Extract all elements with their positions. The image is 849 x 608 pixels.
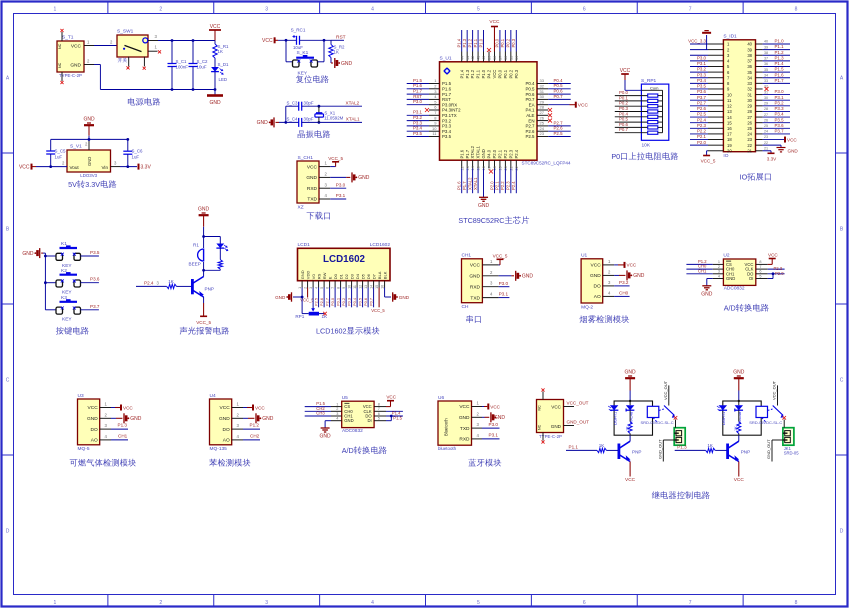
power port GND: [243, 417, 248, 419]
svg-text:NC: NC: [58, 43, 62, 49]
pin T1 GND pin 2: [84, 64, 94, 66]
pin CH1 TXD: [482, 297, 498, 299]
svg-text:P0.5: P0.5: [525, 87, 535, 92]
svg-text:P1.4: P1.4: [459, 69, 464, 78]
wire left pin 18: [690, 139, 708, 141]
svg-text:S_CH1: S_CH1: [298, 155, 314, 161]
svg-text:23: 23: [540, 131, 545, 136]
svg-text:K3: K3: [61, 295, 67, 301]
svg-text:8: 8: [795, 7, 798, 13]
svg-text:P3.5: P3.5: [442, 134, 452, 139]
caption download port: [307, 212, 330, 220]
svg-text:P1.3: P1.3: [677, 445, 687, 450]
svg-text:P2.1: P2.1: [697, 134, 707, 139]
pin U6 GND: [472, 416, 483, 418]
pin U3 DO: [100, 428, 111, 430]
wire LCD net P2.5: [318, 288, 320, 308]
pin U5 VCC: [374, 406, 386, 408]
wire net P1.7: [466, 168, 468, 193]
wire to VCC_5: [707, 150, 708, 152]
svg-text:P1.5: P1.5: [393, 415, 402, 420]
svg-text:P3.7: P3.7: [775, 129, 785, 134]
U1 top pin 44 P1.4: [461, 52, 463, 62]
svg-text:44: 44: [460, 56, 464, 60]
svg-text:P2.3: P2.3: [506, 181, 511, 190]
svg-text:GND: GND: [70, 63, 81, 69]
svg-text:P1.0: P1.0: [775, 39, 785, 44]
U1 left pin 7 P3.1TX: [429, 114, 440, 116]
svg-text:P3.0: P3.0: [499, 281, 509, 286]
svg-text:1: 1: [298, 287, 302, 289]
svg-text:25: 25: [747, 126, 752, 131]
svg-text:P1.6: P1.6: [442, 87, 452, 92]
resistor in LED branch: [219, 248, 221, 260]
svg-text:GND: GND: [481, 149, 486, 158]
svg-text:6: 6: [326, 287, 330, 289]
svg-text:VCC: VCC: [734, 477, 745, 483]
svg-text:30: 30: [540, 94, 545, 99]
svg-text:4: 4: [371, 7, 374, 13]
power port GND earth top: [702, 32, 711, 34]
wire net P1.5: [763, 71, 790, 73]
svg-text:P0.1: P0.1: [336, 298, 341, 306]
wire LCD net P2.6: [323, 288, 325, 308]
transistor PNP: [191, 279, 194, 294]
svg-text:1uF: 1uF: [132, 155, 140, 160]
wire EA to VCC: [548, 104, 569, 106]
svg-text:42: 42: [471, 56, 475, 60]
potentiometer RP1 1K: [309, 312, 319, 316]
LED indicator: [719, 405, 728, 410]
svg-text:P0.7: P0.7: [369, 298, 374, 306]
svg-text:P0.0: P0.0: [330, 297, 335, 306]
no-connect X: [765, 87, 769, 91]
no-connect X: [425, 108, 429, 112]
svg-text:VCC: VCC: [71, 44, 82, 50]
wire net P3.0: [763, 94, 790, 96]
wire net P0.5: [548, 88, 571, 90]
svg-text:D5: D5: [360, 273, 365, 279]
svg-text:P1.3: P1.3: [465, 69, 470, 78]
svg-text:5: 5: [477, 600, 480, 606]
wire GND to frame: [629, 391, 631, 402]
svg-text:P2.4: P2.4: [697, 117, 707, 122]
svg-text:20: 20: [727, 148, 732, 153]
svg-text:U6: U6: [438, 395, 444, 401]
svg-text:38: 38: [764, 51, 768, 55]
svg-text:2: 2: [718, 265, 720, 269]
svg-text:P0.6: P0.6: [363, 298, 368, 306]
wire GND down: [203, 227, 205, 237]
svg-text:P3.7: P3.7: [90, 304, 100, 309]
svg-text:P3.5: P3.5: [775, 117, 785, 122]
svg-text:26: 26: [747, 120, 752, 125]
svg-text:1K: 1K: [322, 314, 329, 319]
svg-text:29: 29: [747, 104, 752, 109]
U1 right pin 23 P2.5: [537, 136, 548, 138]
svg-text:10: 10: [727, 92, 732, 97]
svg-text:K1: K1: [61, 241, 67, 247]
power port GND right: [392, 292, 394, 301]
wire net P2.3: [510, 168, 512, 193]
svg-text:D3: D3: [349, 273, 354, 279]
svg-text:26: 26: [540, 115, 545, 120]
svg-text:P1.0: P1.0: [481, 69, 486, 78]
RP1 resistor P0.6: [615, 126, 648, 128]
MCU S_U1 STC89C52RC: [440, 62, 538, 160]
svg-text:7: 7: [378, 407, 380, 411]
capacitor S_C5 1uF: [50, 139, 52, 151]
svg-text:3.3V: 3.3V: [767, 156, 777, 161]
svg-text:VCC: VCC: [19, 164, 30, 170]
svg-text:GND: GND: [22, 251, 34, 257]
svg-text:LIGHT1: LIGHT1: [614, 412, 618, 425]
svg-text:P2.4: P2.4: [511, 181, 516, 190]
pin U4 AO: [232, 439, 243, 441]
power port VCC: [386, 406, 391, 408]
wire net P1.6: [763, 77, 790, 79]
power port 3.3V: [138, 164, 140, 170]
svg-text:11: 11: [727, 98, 732, 103]
resistor S_R2 1K: [330, 40, 332, 44]
wire net XTAL1: [477, 168, 479, 193]
svg-text:P3.6: P3.6: [90, 277, 100, 282]
wire net P3.2: [407, 120, 429, 122]
wire net P3.4: [763, 116, 790, 118]
wire left pin 13: [690, 110, 708, 112]
svg-text:VCC_5: VCC_5: [328, 156, 343, 161]
power port GND: [111, 417, 116, 419]
svg-text:34: 34: [747, 75, 752, 80]
wire net P1.2: [763, 54, 790, 56]
wire K1 to net P3.5: [81, 255, 99, 257]
svg-text:AO: AO: [594, 294, 601, 300]
wire net P0.6: [548, 93, 571, 95]
svg-text:PNP: PNP: [632, 449, 641, 454]
left branch wire: [285, 106, 287, 122]
svg-text:GND_OUT: GND_OUT: [658, 439, 663, 459]
svg-text:VCC: VCC: [492, 70, 497, 79]
svg-text:100nF: 100nF: [176, 65, 189, 70]
terminal connector green: [783, 428, 794, 446]
VCC_OUT line: [668, 385, 670, 405]
wire LCD net P0.7: [373, 288, 375, 308]
top wire with cap S_C3: [286, 105, 299, 107]
svg-text:1K: 1K: [218, 49, 223, 54]
wire net P3.5: [407, 136, 429, 138]
svg-text:P3.5: P3.5: [413, 131, 423, 136]
pin U2 CH0: [713, 268, 724, 270]
pin U1 VCC: [603, 264, 614, 266]
buzzer R1 BEEP: [203, 237, 205, 249]
svg-text:K2: K2: [61, 268, 67, 274]
wire net P1.6: [407, 88, 429, 90]
RP1 resistor P0.2: [615, 105, 648, 107]
pin T1 top no-connect: [61, 32, 63, 41]
svg-text:STC89C52RC: STC89C52RC: [458, 216, 504, 225]
wire LCD GND pin1 to port: [301, 288, 303, 298]
wire left pin 11: [690, 99, 708, 101]
U1 right pin 31 P0.6: [537, 93, 548, 95]
wire left pin 10: [690, 94, 708, 96]
power port GND left: [273, 117, 275, 127]
svg-text:BLK: BLK: [382, 271, 387, 279]
svg-text:30: 30: [747, 98, 752, 103]
capacitor S_C1 100nF: [171, 41, 173, 64]
wire net P1.5: [305, 406, 331, 408]
caption combustible gas module: [70, 459, 136, 467]
no-connect X: [548, 108, 552, 112]
wire left pin 12: [690, 105, 708, 107]
svg-text:16: 16: [482, 166, 486, 170]
svg-text:P4.2: P4.2: [487, 69, 492, 78]
caption power circuit: [128, 98, 160, 106]
svg-text:GND: GND: [262, 416, 274, 422]
regulator S_V1 LDO3V3: [67, 150, 111, 172]
wire net P3.5: [763, 122, 790, 124]
power port VCC: [575, 102, 577, 108]
pin U1 AO: [603, 295, 614, 297]
svg-text:22: 22: [515, 166, 519, 170]
svg-text:VCC: VCC: [578, 103, 589, 109]
svg-text:GND: GND: [733, 370, 745, 376]
svg-text:43: 43: [466, 56, 470, 60]
svg-text:MQ-135: MQ-135: [210, 446, 228, 452]
wire left pin 8: [690, 82, 708, 84]
svg-text:27: 27: [540, 110, 545, 115]
svg-text:36: 36: [504, 56, 508, 60]
pin U1 DO: [603, 285, 614, 287]
pin U2 CH1: [713, 273, 724, 275]
svg-text:D: D: [6, 529, 10, 535]
svg-text:ALE: ALE: [526, 113, 534, 118]
svg-text:7: 7: [331, 287, 335, 289]
svg-text:P3.5: P3.5: [90, 250, 100, 255]
svg-text:P1.1: P1.1: [775, 44, 785, 49]
svg-text:S_ID1: S_ID1: [723, 34, 737, 40]
base resistor 1K: [136, 285, 167, 287]
svg-text:35: 35: [764, 68, 768, 72]
svg-text:35: 35: [509, 56, 513, 60]
svg-text:GND: GND: [459, 415, 470, 421]
svg-text:P4.3INT2: P4.3INT2: [442, 108, 461, 113]
svg-text:KEY: KEY: [62, 317, 72, 323]
svg-text:10: 10: [432, 126, 437, 131]
svg-text:P3.2: P3.2: [413, 115, 423, 120]
svg-text:40: 40: [482, 56, 486, 60]
svg-text:MQ-2: MQ-2: [581, 305, 593, 311]
svg-text:GND: GND: [633, 273, 645, 279]
pin U4 VCC: [232, 407, 243, 409]
wire collector to frame: [738, 435, 740, 441]
power port GND earth right: [777, 147, 786, 149]
svg-text:GND: GND: [358, 175, 370, 181]
svg-text:P1.7: P1.7: [442, 92, 452, 97]
svg-text:S_SW1: S_SW1: [117, 29, 134, 35]
svg-text:VCC_OUT: VCC_OUT: [772, 380, 777, 400]
svg-text:10: 10: [348, 285, 352, 289]
net VCC_3.3: [690, 43, 708, 45]
svg-text:D6: D6: [366, 273, 371, 279]
wire LED to GND: [214, 72, 216, 96]
svg-text:VCC: VCC: [470, 263, 481, 269]
svg-text:VCC: VCC: [459, 404, 470, 410]
svg-text:P3.3: P3.3: [775, 106, 785, 111]
pin GND to GND_OUT: [564, 425, 575, 427]
svg-text:VCC_3.3: VCC_3.3: [688, 39, 706, 44]
svg-text:39: 39: [764, 45, 768, 49]
wire left pin 16: [690, 127, 708, 129]
push button K2 KEY: [44, 281, 47, 284]
relay coil SRD-05VDC-SL-C: [647, 406, 659, 417]
output connector TYPE-C-2P: [537, 400, 564, 433]
pin CH1 VCC: [319, 166, 330, 168]
flyback diode 1N4148: [738, 401, 740, 405]
svg-text:C: C: [6, 378, 10, 384]
wire net P1.1: [477, 30, 479, 52]
svg-text:33: 33: [747, 81, 752, 86]
wire net P2.5: [548, 136, 571, 138]
svg-text:GND: GND: [344, 418, 353, 423]
svg-text:P0.6: P0.6: [525, 92, 535, 97]
terminal connector green: [674, 428, 685, 446]
svg-text:DI: DI: [368, 418, 372, 423]
svg-text:P0.1: P0.1: [619, 95, 629, 100]
svg-text:BEEP: BEEP: [189, 262, 201, 267]
svg-text:XTAL1: XTAL1: [476, 145, 481, 158]
svg-text:VCC: VCC: [255, 405, 265, 410]
gas module U3 MQ-5: [78, 399, 100, 445]
svg-text:CH0: CH0: [619, 290, 629, 295]
pin T1 bottom no-connect: [61, 72, 63, 81]
power port VCC: [243, 407, 247, 409]
svg-text:P0.0: P0.0: [495, 38, 500, 47]
connector S_CH1: [297, 161, 319, 203]
no-connect X: [548, 113, 552, 117]
svg-text:P3.1: P3.1: [499, 292, 509, 297]
pin U5 CH1: [331, 415, 342, 417]
pin V1 Vin 3: [111, 166, 121, 168]
U1 left pin 11 P3.5: [429, 136, 440, 138]
svg-text:1K: 1K: [599, 443, 606, 448]
svg-text:P1.4: P1.4: [775, 61, 785, 66]
svg-text:Vin: Vin: [101, 165, 108, 170]
svg-text:GND: GND: [551, 424, 562, 429]
wire LCD net P0.2: [345, 288, 347, 308]
caption crystal circuit: [298, 130, 331, 138]
svg-text:18: 18: [727, 137, 732, 142]
wire DI joins DO: [386, 420, 391, 422]
svg-text:P2.0: P2.0: [492, 149, 497, 158]
svg-text:1: 1: [718, 260, 720, 264]
pin U6 RXD: [472, 438, 483, 440]
svg-text:GND: GND: [478, 203, 490, 209]
svg-text:VCC: VCC: [262, 38, 273, 44]
capacitor S_C6 1uF: [127, 139, 129, 151]
svg-text:IO: IO: [740, 173, 748, 182]
svg-text:21: 21: [764, 146, 768, 150]
svg-text:25: 25: [540, 121, 545, 126]
U1 bottom pin 12 P1.6: [461, 160, 463, 168]
power port GND: [515, 271, 517, 281]
power port VCC_5 bottom: [703, 155, 710, 157]
svg-text:R1: R1: [193, 243, 199, 248]
svg-text:39: 39: [488, 56, 492, 60]
VCC_OUT line: [777, 385, 779, 405]
svg-text:XTAL2: XTAL2: [470, 145, 475, 158]
U1 left pin 3 P1.7: [429, 93, 440, 95]
svg-text:P2.1: P2.1: [495, 181, 500, 190]
svg-text:P0.1: P0.1: [503, 69, 508, 78]
svg-text:GND: GND: [522, 274, 534, 280]
coil resistor 1K: [738, 410, 740, 421]
svg-text:P2.7: P2.7: [554, 120, 564, 125]
svg-text:33: 33: [764, 79, 768, 83]
svg-text:P2.5: P2.5: [697, 112, 707, 117]
svg-text:D4: D4: [355, 273, 360, 279]
U1 top pin 38 VCC: [493, 52, 495, 62]
wire LCD net P0.0: [334, 288, 336, 308]
svg-text:VCC_5: VCC_5: [196, 320, 211, 325]
svg-text:GND: GND: [494, 415, 506, 421]
svg-text:LED: LED: [219, 77, 228, 82]
U1 bottom pin 21 P2.3: [510, 160, 512, 168]
svg-text:GND: GND: [83, 117, 95, 123]
svg-text:Bluetooth: Bluetooth: [444, 418, 449, 436]
wire left pin 6: [690, 71, 708, 73]
U1 right pin 26 EN: [537, 120, 548, 122]
wire LCD net P0.6: [367, 288, 369, 308]
wire left pin 7: [690, 77, 708, 79]
svg-text:V0: V0: [311, 274, 316, 280]
svg-text:P3.0: P3.0: [697, 55, 707, 60]
svg-text:8: 8: [795, 600, 798, 606]
power port VCC_5: [499, 264, 500, 266]
pin U2 CLK: [756, 268, 768, 270]
svg-text:1K: 1K: [625, 426, 629, 431]
svg-text:U4: U4: [210, 393, 216, 399]
svg-text:S_C5: S_C5: [55, 148, 67, 153]
svg-text:P2.2: P2.2: [500, 181, 505, 190]
wire LCD net P0.1: [340, 288, 342, 308]
svg-text:13: 13: [466, 166, 470, 170]
svg-text:P0.3: P0.3: [511, 38, 516, 47]
svg-text:37: 37: [499, 56, 503, 60]
svg-text:P4.0: P4.0: [487, 149, 492, 158]
svg-text:VCC: VCC: [220, 405, 231, 411]
power port GND earth: [702, 285, 711, 287]
wire to GND top: [690, 49, 708, 51]
svg-text:S_U1: S_U1: [440, 56, 452, 62]
svg-text:VCC: VCC: [787, 137, 797, 142]
wire LCD VDD pin2 VCC_5: [307, 288, 309, 298]
svg-text:P0.4: P0.4: [619, 111, 629, 116]
wire net P1.6: [461, 168, 463, 193]
wire GND to earth: [707, 278, 713, 280]
U1 left pin 10 P3.4: [429, 130, 440, 132]
svg-text:28: 28: [540, 105, 545, 110]
svg-text:P0.0: P0.0: [498, 69, 503, 78]
U1 bottom pin 14 XTAL2: [472, 160, 474, 168]
U1 bottom pin 18 P2.0: [493, 160, 495, 168]
power port VCC: [209, 29, 221, 31]
svg-text:GND: GND: [788, 149, 799, 154]
svg-text:XTAL1: XTAL1: [346, 116, 360, 121]
svg-text:BLA: BLA: [377, 271, 382, 279]
svg-text:P1.5: P1.5: [775, 67, 785, 72]
svg-text:GND: GND: [87, 157, 92, 166]
pin U5 DO: [374, 415, 386, 417]
